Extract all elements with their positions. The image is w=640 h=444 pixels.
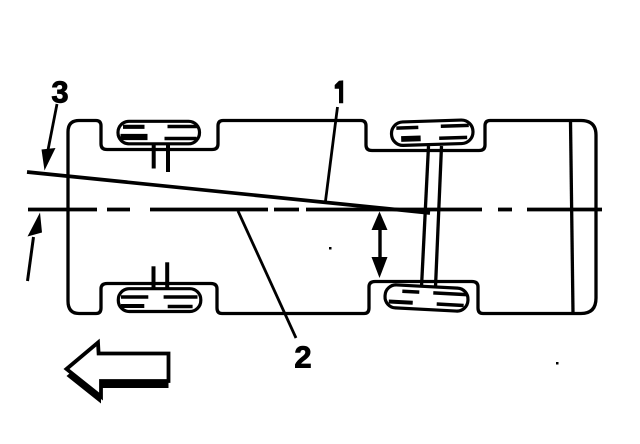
svg-text:3: 3	[51, 75, 68, 110]
geometric centerline (dash-dot), label 2	[28, 208, 602, 212]
wheel rear-left RL	[391, 120, 473, 146]
front-left axle stubs	[152, 145, 156, 169]
thrust line, label 1	[27, 172, 430, 213]
rear axle beam	[422, 146, 429, 287]
leader line for label 2	[238, 211, 296, 338]
leader line for label 3	[48, 104, 57, 150]
direction-of-travel arrow (bottom left)	[67, 343, 169, 404]
wheel front-left FL	[118, 121, 200, 144]
double-headed arrow between centerline and rear wheel well	[372, 212, 388, 279]
vehicle body outline	[68, 121, 596, 314]
wheel front-right FR	[118, 289, 201, 312]
speck	[329, 247, 332, 250]
arrowhead of leader 3 pointing to thrust line	[42, 148, 56, 171]
label 1	[335, 80, 344, 103]
trunk line	[571, 121, 574, 313]
speck	[556, 362, 559, 365]
svg-text:2: 2	[294, 340, 311, 375]
leader line for label 1	[326, 107, 338, 201]
front-right axle stubs	[152, 266, 156, 288]
wheel rear-right RR (toed)	[384, 284, 468, 311]
arrow pointing at centerline (left)	[28, 237, 34, 281]
